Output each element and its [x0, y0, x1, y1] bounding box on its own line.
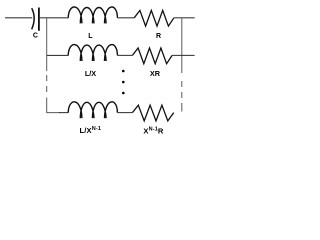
svg-text:L: L [88, 33, 93, 40]
inductor L/X^N-1 [68, 102, 117, 118]
wire node A to inductor L [47, 17, 69, 19]
wire bottom corner to inductor [59, 112, 68, 114]
left bus solid lower segment with corner [47, 98, 60, 113]
svg-text:XN-1R: XN-1R [143, 126, 164, 135]
ellipsis dot 1 [122, 70, 125, 73]
left bus solid upper segment [46, 18, 48, 71]
wire R to right bus [174, 17, 182, 19]
svg-text:R: R [156, 33, 161, 40]
svg-text:XR: XR [150, 69, 161, 78]
resistor R [134, 10, 174, 26]
inductor L/X [68, 45, 117, 61]
inductor L [68, 7, 117, 23]
output stub top [182, 17, 195, 19]
svg-text:C: C [33, 33, 38, 40]
wire L/X^N-1 to X^N-1R [117, 112, 132, 114]
input lead wire [5, 17, 32, 19]
capacitor C curved plate [32, 8, 34, 29]
resistor XR [132, 48, 172, 64]
left bus dashed segment [46, 75, 48, 93]
ellipsis dot 3 [122, 92, 125, 95]
right bus dashed segment [181, 81, 183, 113]
resistor X^N-1R [132, 105, 173, 121]
wire L to R [117, 17, 134, 19]
wire L/X to XR [117, 54, 132, 56]
svg-text:L/XN-1: L/XN-1 [80, 126, 102, 135]
ellipsis dot 2 [122, 81, 125, 84]
right bus solid segment [181, 18, 183, 73]
output stub row2 [182, 54, 195, 56]
wire XR to right bus [172, 54, 182, 56]
wire cap to node A [40, 17, 47, 19]
svg-text:L/X: L/X [85, 69, 96, 78]
capacitor C straight plate [38, 8, 40, 31]
wire node B to inductor L/X [47, 54, 68, 56]
